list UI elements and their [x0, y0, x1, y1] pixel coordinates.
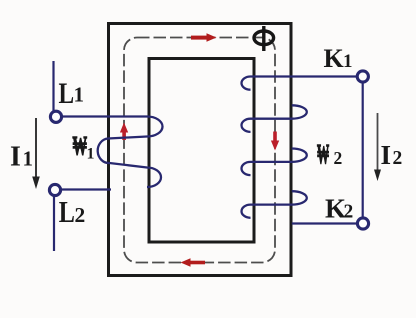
secondary winding W2 turn 2 [242, 105, 307, 132]
wire L2 stub [53, 196, 55, 251]
flux path dashed loop [124, 38, 275, 263]
wire L1 stub [52, 61, 54, 111]
flux arrow right leg (down) [271, 132, 279, 151]
svg-text:L: L [59, 195, 75, 230]
label W1 (turns) [73, 131, 95, 162]
secondary winding W2 turn 1 / K1 lead [242, 77, 357, 90]
label L2 [59, 195, 85, 230]
label I2 [381, 140, 403, 170]
svg-text:1: 1 [87, 145, 95, 162]
flux symbol Phi [254, 26, 274, 51]
svg-text:2: 2 [334, 148, 343, 168]
primary winding W1 [62, 117, 163, 188]
svg-text:1: 1 [343, 51, 353, 72]
transformer core outer edge [109, 24, 292, 276]
svg-text:I: I [10, 142, 21, 173]
svg-text:I: I [381, 140, 392, 170]
svg-text:2: 2 [344, 202, 354, 223]
wire K1-K2 connector [362, 83, 364, 219]
label K2 [325, 194, 353, 224]
svg-text:2: 2 [75, 203, 86, 227]
svg-text:₩: ₩ [317, 138, 329, 169]
svg-text:K: K [324, 44, 345, 73]
svg-text:1: 1 [23, 147, 34, 171]
terminal L2 [49, 184, 60, 195]
flux arrow top (right) [191, 33, 217, 42]
label K1 [324, 44, 353, 73]
transformer core inner edge (window) [149, 59, 254, 243]
current I2 arrow [374, 113, 381, 181]
terminal K1 [357, 71, 368, 82]
label I1 [10, 142, 33, 173]
current I1 arrow [32, 118, 40, 189]
secondary winding W2 turn 4 [242, 191, 307, 218]
label L1 [59, 76, 85, 109]
svg-text:2: 2 [393, 148, 403, 169]
svg-text:1: 1 [74, 83, 85, 107]
secondary winding W2 turn 3 [242, 149, 307, 176]
svg-text:L: L [59, 76, 75, 109]
terminal K2 [357, 218, 368, 229]
label W2 (turns) [317, 138, 342, 169]
flux arrow bottom (left) [181, 258, 206, 267]
svg-text:₩: ₩ [73, 131, 88, 161]
terminal L1 [50, 111, 61, 122]
wire L2 lead [61, 188, 111, 190]
wire K2 lead [292, 222, 357, 224]
flux arrow left leg (up) [120, 123, 128, 141]
